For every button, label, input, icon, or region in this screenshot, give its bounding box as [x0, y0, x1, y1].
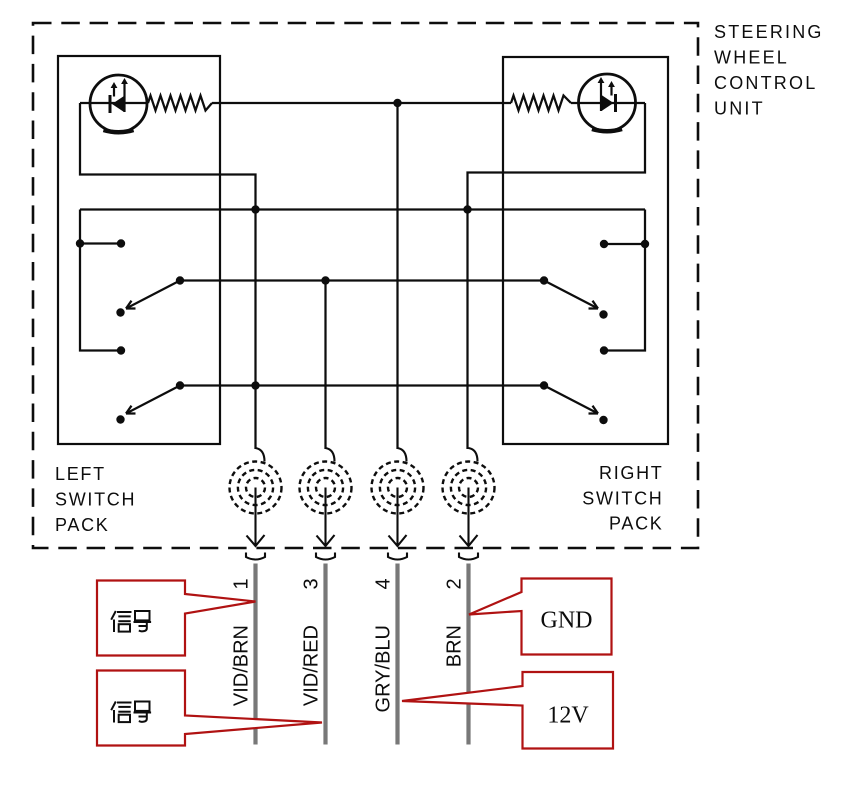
svg-text:BRN: BRN	[444, 625, 466, 667]
svg-text:12V: 12V	[547, 703, 589, 729]
svg-text:CONTROL: CONTROL	[714, 73, 817, 93]
svg-text:UNIT: UNIT	[714, 99, 765, 119]
svg-text:SWITCH: SWITCH	[55, 490, 136, 510]
svg-text:GND: GND	[541, 608, 593, 634]
svg-text:2: 2	[444, 578, 466, 589]
svg-text:LEFT: LEFT	[55, 464, 106, 484]
svg-text:1: 1	[231, 578, 253, 589]
svg-text:PACK: PACK	[55, 515, 109, 535]
svg-text:VID/RED: VID/RED	[301, 625, 323, 706]
svg-text:RIGHT: RIGHT	[599, 463, 664, 483]
svg-text:4: 4	[373, 578, 395, 589]
svg-text:VID/BRN: VID/BRN	[231, 625, 253, 706]
svg-text:WHEEL: WHEEL	[714, 48, 789, 68]
svg-text:STEERING: STEERING	[714, 22, 824, 42]
svg-text:GRY/BLU: GRY/BLU	[373, 625, 395, 712]
svg-text:3: 3	[301, 578, 323, 589]
svg-text:SWITCH: SWITCH	[582, 488, 663, 508]
svg-text:PACK: PACK	[609, 514, 663, 534]
